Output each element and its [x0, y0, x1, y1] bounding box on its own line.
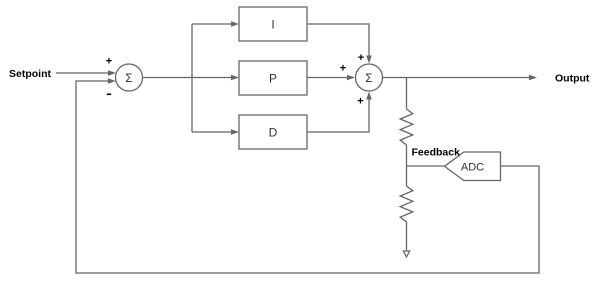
svg-text:Σ: Σ — [365, 71, 372, 85]
svg-text:+: + — [340, 63, 346, 75]
svg-text:P: P — [269, 72, 277, 86]
svg-text:D: D — [269, 126, 278, 140]
svg-text:ADC: ADC — [461, 162, 484, 174]
svg-text:Setpoint: Setpoint — [9, 68, 51, 80]
svg-text:Output: Output — [555, 73, 590, 85]
svg-text:+: + — [358, 52, 364, 64]
svg-text:I: I — [271, 18, 274, 32]
svg-text:Feedback: Feedback — [412, 147, 461, 159]
svg-text:+: + — [106, 56, 112, 68]
svg-text:Σ: Σ — [125, 71, 132, 85]
svg-text:+: + — [357, 96, 363, 108]
